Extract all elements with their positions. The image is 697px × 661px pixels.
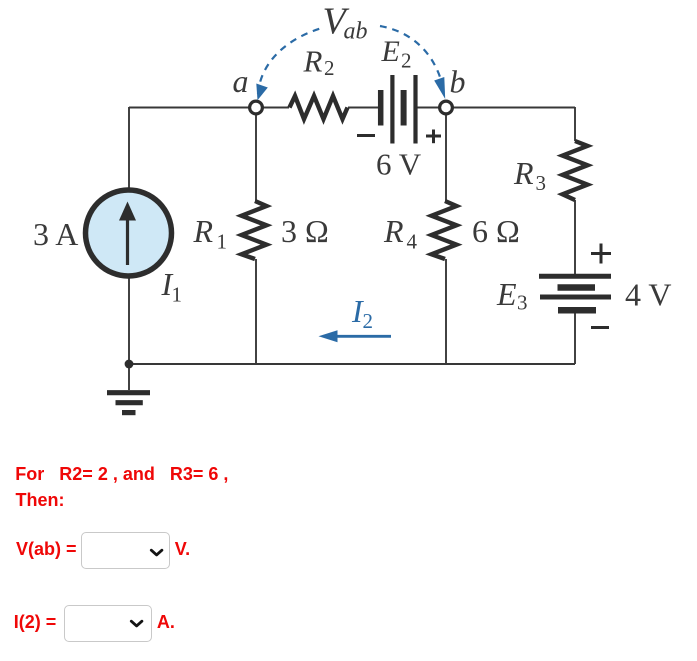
ground xyxy=(107,393,150,413)
svg-text:1: 1 xyxy=(172,283,183,307)
svg-text:3 Ω: 3 Ω xyxy=(281,213,329,249)
node b xyxy=(440,101,453,114)
svg-text:2: 2 xyxy=(324,56,335,80)
wire R4 to bottom xyxy=(445,259,447,364)
wire E3 to bottom xyxy=(574,312,576,364)
svg-text:b: b xyxy=(450,64,466,100)
wire bottom rail xyxy=(129,363,575,365)
svg-text:R: R xyxy=(513,155,534,191)
current arrow I2 xyxy=(319,330,392,342)
wire node a to R1 xyxy=(255,113,257,201)
svg-text:4: 4 xyxy=(407,230,418,254)
svg-text:3 A: 3 A xyxy=(33,216,78,252)
wire E2 to right rail xyxy=(418,107,576,109)
wire source to bottom junction xyxy=(128,276,130,364)
svg-text:R: R xyxy=(303,43,323,78)
svg-text:6 Ω: 6 Ω xyxy=(472,213,520,249)
row V(ab) label xyxy=(16,540,77,558)
wire node b to R4 xyxy=(445,113,447,201)
question line 2 xyxy=(16,491,65,509)
Vab arrowhead at b xyxy=(434,77,445,99)
wire right rail to R3 xyxy=(574,107,576,141)
wire ground stem xyxy=(128,364,130,390)
svg-text:3: 3 xyxy=(536,171,547,195)
svg-text:2: 2 xyxy=(363,309,374,333)
resistor R3 xyxy=(563,141,588,200)
svg-text:4 V: 4 V xyxy=(625,277,672,313)
svg-text:3: 3 xyxy=(517,291,528,315)
Vab arrowhead at a xyxy=(256,84,268,101)
wire R1 to bottom xyxy=(255,259,257,364)
node a xyxy=(250,101,263,114)
Vab dashed arc left xyxy=(258,28,322,94)
E3 minus sign xyxy=(591,326,609,329)
resistor R4 xyxy=(432,201,457,259)
row I(2) label xyxy=(14,613,57,631)
svg-text:R: R xyxy=(383,213,404,249)
question line 1 xyxy=(15,465,228,483)
wire R2 to E2 xyxy=(348,107,378,109)
dropdown V(ab) xyxy=(81,532,170,569)
unit A. xyxy=(157,613,175,631)
wire top left rail to R2 xyxy=(129,107,289,109)
dropdown I(2) xyxy=(64,605,152,642)
E2 minus sign xyxy=(357,134,375,137)
svg-text:2: 2 xyxy=(401,49,412,73)
svg-text:E: E xyxy=(381,35,400,68)
unit V. xyxy=(175,540,190,558)
E3 plus sign xyxy=(591,244,611,264)
Vab dashed arc right xyxy=(380,26,444,92)
svg-text:R: R xyxy=(193,213,214,249)
wire left rail down to source xyxy=(128,107,130,190)
resistor R2 xyxy=(290,96,348,119)
svg-text:E: E xyxy=(496,276,517,312)
battery E2 xyxy=(381,75,416,144)
E2 plus sign xyxy=(426,130,441,144)
svg-text:a: a xyxy=(233,63,249,99)
resistor R1 xyxy=(242,201,267,259)
svg-text:1: 1 xyxy=(217,230,228,254)
svg-text:ab: ab xyxy=(344,19,368,45)
svg-text:6 V: 6 V xyxy=(376,147,422,182)
current source I1 xyxy=(86,190,172,276)
junction node xyxy=(125,360,134,369)
wire R3 to E3 xyxy=(574,200,576,274)
battery E3 xyxy=(539,276,611,310)
